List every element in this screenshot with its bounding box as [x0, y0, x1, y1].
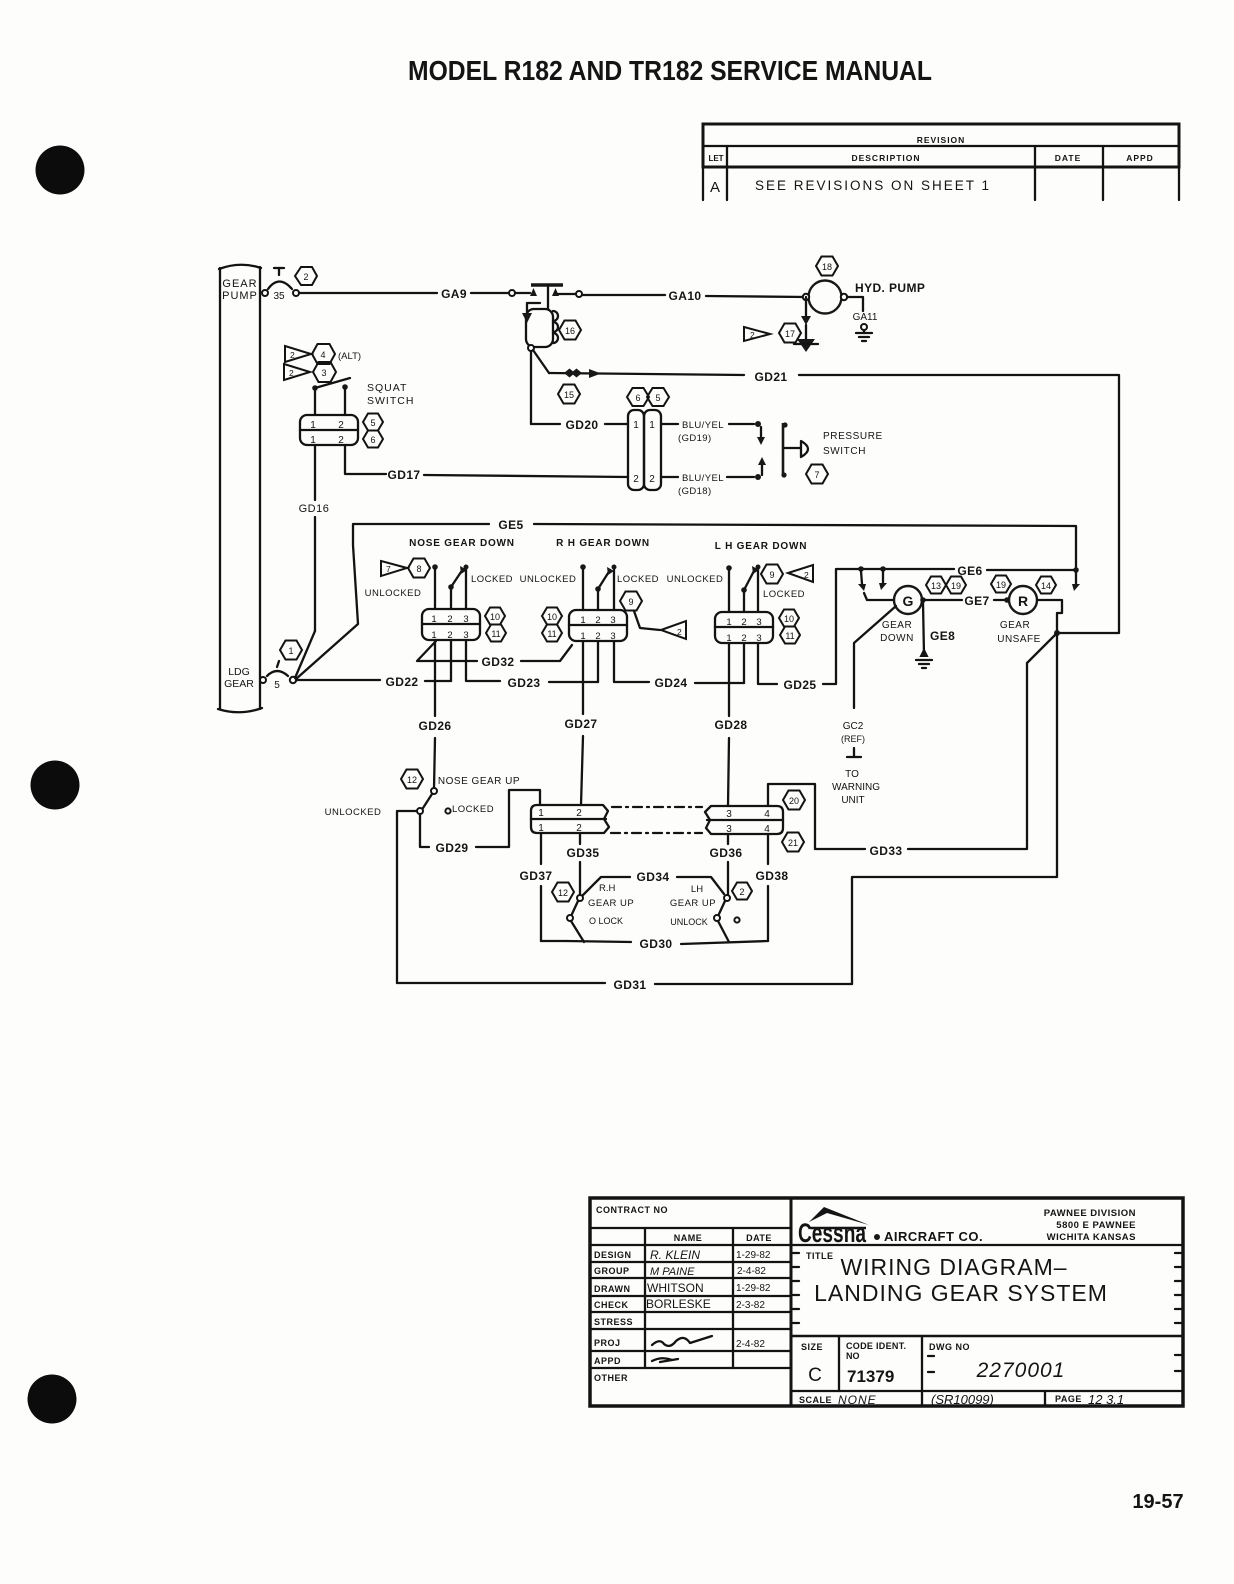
svg-text:GD28: GD28: [715, 718, 748, 732]
svg-text:GEAR UP: GEAR UP: [588, 898, 634, 909]
hex 17: [779, 324, 801, 343]
dashed connector continuation: [612, 806, 702, 808]
svg-text:DATE: DATE: [746, 1233, 772, 1243]
svg-text:1-29-82: 1-29-82: [736, 1283, 771, 1294]
svg-text:NAME: NAME: [674, 1233, 703, 1243]
wire GD32: [417, 641, 477, 661]
svg-text:GD29: GD29: [436, 841, 469, 855]
svg-text:WARNING: WARNING: [832, 782, 880, 793]
svg-text:SWITCH: SWITCH: [823, 446, 866, 457]
svg-text:2: 2: [804, 570, 809, 580]
svg-text:GD17: GD17: [388, 468, 421, 482]
svg-text:2: 2: [677, 627, 682, 637]
svg-text:GE7: GE7: [964, 594, 989, 608]
binding tick marks: [793, 1252, 799, 1254]
svg-text:GEAR: GEAR: [222, 278, 257, 290]
svg-text:TITLE: TITLE: [806, 1251, 834, 1261]
proj signature: [652, 1336, 712, 1346]
svg-text:L H GEAR DOWN: L H GEAR DOWN: [715, 541, 807, 552]
connector block 6/5: [628, 410, 644, 490]
svg-text:STRESS: STRESS: [594, 1317, 633, 1327]
svg-text:GD37: GD37: [520, 869, 553, 883]
GE6 contact pins: [861, 571, 862, 584]
ALT callout flag 2>4: [285, 346, 311, 362]
wire BLU/YEL GD18: [661, 476, 678, 478]
svg-text:1: 1: [649, 420, 655, 431]
svg-text:3: 3: [756, 617, 761, 628]
ground GA11: [861, 324, 867, 330]
svg-text:GD16: GD16: [299, 503, 330, 515]
svg-text:5: 5: [370, 418, 375, 428]
svg-text:GD24: GD24: [655, 676, 688, 690]
hex 7: [806, 465, 828, 484]
hex 2 (lh gear up): [732, 883, 752, 900]
svg-text:LOCKED: LOCKED: [471, 574, 513, 585]
squat switch connector block: [300, 415, 358, 445]
svg-text:11: 11: [547, 629, 556, 639]
wire GD24: [614, 641, 649, 682]
svg-text:GD20: GD20: [566, 418, 599, 432]
relay contact (pump relay): [509, 290, 515, 296]
squat switch leads: [314, 390, 316, 415]
svg-text:2-4-82: 2-4-82: [736, 1339, 765, 1350]
relay coil (hex 16): [526, 309, 553, 347]
svg-text:BLU/YEL: BLU/YEL: [682, 420, 724, 431]
svg-text:2: 2: [289, 368, 294, 378]
gear up connector box 1: [531, 805, 609, 833]
svg-text:REVISION: REVISION: [917, 135, 966, 145]
hex 19: [946, 577, 966, 594]
svg-text:LANDING GEAR SYSTEM: LANDING GEAR SYSTEM: [814, 1280, 1108, 1306]
hex 5 (block): [647, 388, 669, 406]
lamp G (gear down): [894, 586, 922, 614]
svg-text:APPD: APPD: [1126, 153, 1154, 163]
svg-text:GD30: GD30: [640, 937, 673, 951]
svg-text:GD36: GD36: [710, 846, 743, 860]
punch hole middle: [31, 761, 80, 810]
svg-text:UNLOCKED: UNLOCKED: [325, 807, 382, 818]
rh gear down connector: [569, 610, 627, 641]
svg-text:NOSE GEAR DOWN: NOSE GEAR DOWN: [409, 538, 515, 549]
lh gear down connector: [715, 612, 773, 643]
svg-text:2: 2: [447, 614, 452, 625]
svg-text:CHECK: CHECK: [594, 1300, 629, 1310]
svg-text:3: 3: [463, 614, 468, 625]
svg-text:12: 12: [407, 775, 417, 785]
wire GD38: [767, 834, 769, 864]
svg-text:GE8: GE8: [930, 629, 955, 643]
svg-text:LOCKED: LOCKED: [763, 589, 805, 600]
svg-text:NOSE GEAR UP: NOSE GEAR UP: [438, 776, 520, 787]
svg-text:1: 1: [288, 646, 293, 656]
wire R to junction: [1037, 600, 1062, 633]
svg-text:1: 1: [310, 420, 316, 431]
svg-text:AIRCRAFT CO.: AIRCRAFT CO.: [884, 1229, 983, 1244]
svg-text:R: R: [1018, 593, 1028, 609]
svg-text:9: 9: [628, 597, 633, 607]
svg-text:16: 16: [565, 326, 575, 336]
svg-text:2: 2: [739, 887, 744, 897]
hex 20: [783, 791, 805, 810]
svg-text:DATE: DATE: [1055, 153, 1082, 163]
svg-text:DOWN: DOWN: [880, 633, 914, 644]
svg-text:PRESSURE: PRESSURE: [823, 431, 883, 442]
svg-text:GD38: GD38: [756, 869, 789, 883]
svg-text:GA9: GA9: [441, 287, 467, 301]
callout flag 9-2 (lh): [788, 565, 813, 582]
svg-text:GD32: GD32: [482, 655, 515, 669]
nose gear up switch hex 12: [401, 770, 423, 789]
hex 19 (r): [991, 576, 1011, 593]
wire GA11: [847, 297, 863, 311]
svg-text:WIRING DIAGRAM–: WIRING DIAGRAM–: [840, 1254, 1067, 1280]
svg-text:SWITCH: SWITCH: [367, 395, 414, 407]
ground GE8: [921, 650, 927, 656]
svg-text:5800 E PAWNEE: 5800 E PAWNEE: [1056, 1220, 1136, 1231]
svg-text:DESIGN: DESIGN: [594, 1250, 632, 1260]
hex 10 (rh): [542, 608, 562, 625]
svg-text:19-57: 19-57: [1132, 1491, 1183, 1513]
svg-text:21: 21: [788, 838, 798, 848]
svg-text:GC2: GC2: [843, 721, 864, 732]
wire coil to GD20: [530, 351, 532, 424]
title block outer frame: [590, 1198, 1183, 1406]
wire GD22: [296, 679, 380, 681]
hex 6 (block): [627, 388, 649, 406]
gear pump bus box: [219, 268, 221, 709]
svg-text:1: 1: [633, 420, 639, 431]
svg-text:M PAINE: M PAINE: [650, 1266, 695, 1278]
svg-text:TO: TO: [845, 769, 859, 780]
revision table column rules: [726, 146, 728, 200]
svg-text:2: 2: [303, 272, 308, 282]
svg-text:4: 4: [320, 350, 325, 360]
svg-text:10: 10: [547, 612, 557, 622]
svg-text:3: 3: [610, 615, 615, 626]
appd scribble: [652, 1358, 678, 1362]
svg-text:UNLOCK: UNLOCK: [670, 917, 708, 927]
wire GD37: [540, 833, 542, 864]
svg-text:2: 2: [576, 808, 582, 819]
hex 15: [558, 385, 580, 404]
wire GE6: [858, 568, 954, 570]
rh gear up switch hex 12: [552, 883, 574, 902]
svg-text:GD33: GD33: [870, 844, 903, 858]
svg-text:GEAR: GEAR: [882, 620, 912, 631]
wire GD27: [582, 641, 584, 714]
lamp R (gear unsafe): [1009, 586, 1037, 614]
node: LDG GEAR terminal 5: [260, 677, 266, 683]
hex 3: [313, 362, 336, 382]
svg-text:NONE: NONE: [838, 1393, 877, 1407]
svg-text:GD25: GD25: [784, 678, 817, 692]
svg-text:12: 12: [558, 888, 568, 898]
wire terminal to GE5: [296, 524, 489, 679]
svg-text:2270001: 2270001: [976, 1359, 1066, 1382]
svg-text:PAGE: PAGE: [1055, 1394, 1082, 1404]
svg-text:UNSAFE: UNSAFE: [997, 634, 1041, 645]
svg-text:WHITSON: WHITSON: [647, 1281, 704, 1295]
svg-text:2: 2: [595, 615, 600, 626]
svg-text:(GD19): (GD19): [678, 433, 712, 444]
svg-text:UNLOCKED: UNLOCKED: [365, 588, 422, 599]
svg-text:UNIT: UNIT: [841, 795, 864, 806]
svg-text:2: 2: [741, 617, 746, 628]
ground (pump): [797, 339, 815, 352]
svg-text:9: 9: [769, 570, 774, 580]
wire terminal to GD16: [295, 631, 315, 678]
circuit breaker 35: [262, 290, 268, 296]
svg-text:GEAR: GEAR: [224, 678, 254, 690]
svg-text:(GD18): (GD18): [678, 486, 712, 497]
svg-text:17: 17: [785, 329, 795, 339]
svg-text:GD27: GD27: [565, 717, 598, 731]
personnel rows: [590, 1261, 791, 1263]
hex 14: [1036, 577, 1056, 594]
hex 11 (rh): [542, 625, 562, 642]
splice on GD21: [564, 369, 575, 378]
svg-text:12 3.1: 12 3.1: [1088, 1392, 1124, 1407]
svg-text:LH: LH: [691, 884, 703, 895]
svg-text:R H GEAR DOWN: R H GEAR DOWN: [556, 538, 650, 549]
svg-text:LOCKED: LOCKED: [617, 574, 659, 585]
svg-text:13: 13: [931, 581, 941, 591]
svg-text:PUMP: PUMP: [222, 290, 258, 302]
svg-text:4: 4: [764, 809, 770, 820]
svg-text:G: G: [903, 593, 914, 609]
nose gear up switch: [431, 788, 437, 794]
svg-text:3: 3: [321, 368, 326, 378]
hex 9 (lh): [761, 565, 783, 584]
svg-text:PROJ: PROJ: [594, 1338, 621, 1348]
svg-text:10: 10: [784, 614, 794, 624]
hex 10 (nose): [485, 608, 505, 625]
svg-text:2-3-82: 2-3-82: [736, 1300, 765, 1311]
wire BLU/YEL GD19: [661, 423, 678, 425]
pump ground leg: [805, 297, 807, 316]
svg-text:NO: NO: [846, 1351, 860, 1361]
svg-text:6: 6: [370, 435, 375, 445]
wire GD20: [531, 423, 560, 425]
svg-text:GD26: GD26: [419, 719, 452, 733]
svg-text:2: 2: [338, 435, 344, 446]
wire GD26: [434, 640, 436, 716]
svg-text:GEAR: GEAR: [1000, 620, 1030, 631]
svg-text:GD31: GD31: [614, 978, 647, 992]
svg-text:C: C: [808, 1365, 822, 1386]
svg-text:2: 2: [649, 474, 655, 485]
svg-text:MODEL R182 AND TR182 SERVICE M: MODEL R182 AND TR182 SERVICE MANUAL: [408, 55, 932, 86]
revision table frame: [703, 124, 1179, 167]
lh gear up switch: [724, 895, 730, 901]
callout flag 9-2 (rh): [634, 611, 660, 630]
svg-text:GE5: GE5: [498, 518, 523, 532]
svg-text:SIZE: SIZE: [801, 1342, 823, 1352]
svg-text:1-29-82: 1-29-82: [736, 1250, 771, 1261]
nose gear down connector: [422, 609, 480, 640]
ALT callout flag 2>3: [284, 364, 310, 380]
hex 1: [280, 641, 302, 660]
hex 13: [926, 577, 946, 594]
svg-text:GROUP: GROUP: [594, 1266, 630, 1276]
wire J1 to GD31: [852, 633, 1057, 984]
svg-text:(REF): (REF): [841, 734, 865, 744]
svg-text:CONTRACT NO: CONTRACT NO: [596, 1205, 668, 1215]
svg-text:DRAWN: DRAWN: [594, 1284, 631, 1294]
svg-text:WICHITA KANSAS: WICHITA KANSAS: [1047, 1232, 1136, 1243]
svg-text:1: 1: [726, 617, 731, 628]
hex 10 (lh): [779, 610, 799, 627]
svg-text:(ALT): (ALT): [338, 351, 361, 362]
svg-text:GD23: GD23: [508, 676, 541, 690]
wire GD33 riser from pin 4: [768, 784, 865, 849]
hex 9 (rh): [620, 592, 642, 611]
svg-text:2: 2: [633, 474, 639, 485]
squat switch arm: [312, 385, 318, 391]
svg-text:A: A: [710, 179, 720, 196]
hex 4: [312, 344, 335, 364]
wire GD34: [583, 877, 630, 895]
svg-text:LOCKED: LOCKED: [452, 804, 494, 815]
svg-text:GEAR UP: GEAR UP: [670, 898, 716, 909]
svg-text:SEE REVISIONS ON SHEET 1: SEE REVISIONS ON SHEET 1: [755, 178, 991, 193]
svg-text:Cessna: Cessna: [798, 1218, 867, 1248]
svg-text:HYD. PUMP: HYD. PUMP: [855, 281, 925, 295]
svg-text:DESCRIPTION: DESCRIPTION: [851, 153, 920, 163]
svg-text:15: 15: [564, 390, 574, 400]
pressure switch contacts: [760, 427, 762, 437]
nose gear down switch: [381, 561, 407, 576]
svg-text:R.H: R.H: [599, 883, 616, 894]
svg-text:GD34: GD34: [637, 870, 670, 884]
wire coil to GD21: [533, 350, 549, 373]
svg-text:GD22: GD22: [386, 675, 419, 689]
hex 5 (squat): [363, 414, 383, 431]
svg-text:BORLESKE: BORLESKE: [646, 1297, 711, 1311]
hex 6 (squat): [363, 431, 383, 448]
svg-text:PAWNEE DIVISION: PAWNEE DIVISION: [1044, 1208, 1136, 1219]
hex 2 (breaker callout): [295, 267, 317, 285]
svg-text:GD35: GD35: [567, 846, 600, 860]
size / code / dwg row: [791, 1335, 1183, 1338]
punch hole bottom: [28, 1375, 77, 1424]
wire GD36: [727, 834, 729, 844]
pressure switch body: [782, 423, 785, 476]
wire GD23: [466, 640, 500, 681]
svg-text:20: 20: [789, 796, 799, 806]
svg-text:1: 1: [431, 614, 436, 625]
svg-text:GA11: GA11: [853, 312, 878, 323]
wire GD25: [758, 643, 777, 684]
svg-text:5: 5: [655, 393, 660, 403]
svg-text:6: 6: [635, 393, 640, 403]
svg-text:19: 19: [996, 580, 1006, 590]
hex 11 (lh): [780, 627, 800, 644]
svg-text:11: 11: [785, 631, 794, 641]
wire GA10: [582, 294, 665, 296]
hex 16: [559, 321, 581, 340]
wire GD30: [541, 940, 566, 942]
svg-text:GA10: GA10: [669, 289, 702, 303]
svg-text:8: 8: [416, 564, 421, 574]
svg-text:2: 2: [338, 420, 344, 431]
wire GD35: [579, 833, 581, 844]
svg-text:1: 1: [538, 808, 544, 819]
svg-text:(SR10099): (SR10099): [931, 1392, 994, 1407]
rh gear up switch: [577, 895, 583, 901]
svg-text:DWG NO: DWG NO: [929, 1342, 970, 1352]
svg-text:CODE IDENT.: CODE IDENT.: [846, 1341, 906, 1351]
wire GD31: [397, 982, 605, 984]
title block main divider: [790, 1198, 793, 1406]
svg-text:14: 14: [1041, 581, 1051, 591]
scale row: [791, 1390, 1183, 1392]
hex 21: [782, 833, 804, 852]
wire GD16: [314, 445, 316, 500]
svg-text:2-4-82: 2-4-82: [737, 1266, 766, 1277]
svg-text:19: 19: [951, 581, 961, 591]
svg-text:UNLOCKED: UNLOCKED: [667, 574, 724, 585]
svg-text:BLU/YEL: BLU/YEL: [682, 473, 724, 484]
svg-text:OTHER: OTHER: [594, 1373, 628, 1383]
svg-text:18: 18: [822, 262, 832, 272]
callout flag near 17: [744, 327, 770, 341]
svg-text:7: 7: [386, 564, 391, 574]
svg-text:2: 2: [290, 350, 295, 360]
gear up connector box 2: [705, 806, 783, 834]
svg-text:UNLOCKED: UNLOCKED: [520, 574, 577, 585]
svg-text:7: 7: [814, 470, 819, 480]
svg-text:3: 3: [726, 809, 732, 820]
wire GD28: [728, 643, 730, 716]
hex 11 (nose): [486, 625, 506, 642]
svg-text:R. KLEIN: R. KLEIN: [650, 1248, 700, 1262]
svg-text:SQUAT: SQUAT: [367, 382, 407, 394]
wire GD17: [345, 445, 386, 474]
svg-text:5: 5: [274, 680, 280, 691]
svg-text:71379: 71379: [847, 1367, 894, 1386]
wire G to GC2: [854, 606, 896, 708]
wire GA9: [299, 292, 437, 294]
svg-text:2: 2: [750, 330, 755, 340]
svg-text:1: 1: [580, 615, 585, 626]
wire GD29: [420, 814, 429, 847]
svg-text:GD21: GD21: [755, 370, 788, 384]
svg-text:10: 10: [490, 612, 500, 622]
wire GE7: [920, 597, 926, 603]
hyd pump motor (hex 18): [816, 257, 838, 276]
wire to lamp G: [864, 593, 894, 600]
svg-text:35: 35: [273, 291, 285, 302]
wire to GD31 riser: [397, 811, 417, 983]
punch hole top: [36, 146, 85, 195]
svg-text:11: 11: [491, 629, 500, 639]
svg-text:O LOCK: O LOCK: [589, 916, 623, 926]
wire GD21: [549, 373, 744, 375]
node J1: [1054, 630, 1060, 636]
svg-text:LDG: LDG: [228, 666, 250, 678]
svg-text:APPD: APPD: [594, 1356, 621, 1366]
svg-text:SCALE: SCALE: [799, 1395, 832, 1405]
svg-text:LET: LET: [708, 154, 723, 163]
